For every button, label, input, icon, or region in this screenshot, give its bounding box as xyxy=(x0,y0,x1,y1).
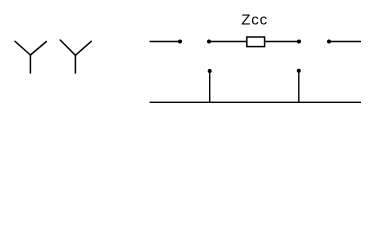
wire: dot B to impedance box xyxy=(209,41,246,43)
wire: vertical stub E to neutral xyxy=(209,71,211,102)
node: stub dot F xyxy=(297,69,301,73)
wye symbol Y2 (secondary winding) xyxy=(60,40,91,73)
wire: impedance box to dot C xyxy=(265,41,299,43)
wire: neutral (bottom) line xyxy=(150,101,361,103)
wire: top-left segment xyxy=(150,41,180,43)
node: stub dot E xyxy=(208,69,212,73)
node: terminal dot D xyxy=(327,40,331,44)
svg-text:Zcc: Zcc xyxy=(241,11,268,28)
node: terminal dot A xyxy=(178,40,182,44)
wire: vertical stub F to neutral xyxy=(298,71,300,103)
impedance Zcc (box) xyxy=(247,37,265,47)
node: terminal dot C xyxy=(297,40,301,44)
wire: top-right segment xyxy=(329,41,361,43)
wye symbol Y1 (primary winding) xyxy=(15,41,46,73)
node: terminal dot B xyxy=(207,40,211,44)
